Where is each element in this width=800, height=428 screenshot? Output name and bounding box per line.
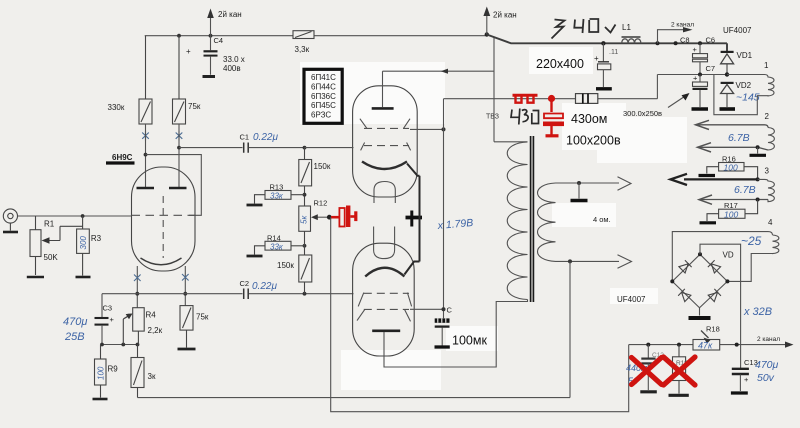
wire heater w1 top lead with arrow	[696, 120, 769, 129]
tube V3 anode	[372, 329, 400, 332]
ground R3	[76, 276, 91, 279]
svg-text:2й кан: 2й кан	[218, 10, 242, 19]
svg-text:C6: C6	[706, 36, 716, 45]
diode bridge BL	[678, 289, 691, 302]
node junction dot on rail at 75k	[177, 34, 181, 38]
svg-text:4: 4	[768, 218, 773, 227]
ground C4	[203, 75, 216, 78]
svg-text:L1: L1	[622, 23, 631, 32]
resistor 330к	[139, 36, 152, 124]
ground VD2	[720, 107, 736, 111]
svg-text:100: 100	[724, 210, 738, 220]
pin cross mark	[142, 131, 149, 141]
resistor R14	[255, 231, 305, 255]
tube U1 plates	[137, 187, 187, 189]
resistor R9	[95, 345, 107, 398]
capacitor C3	[95, 304, 115, 345]
node bridge left/right dots	[670, 279, 674, 283]
ground C13	[731, 391, 748, 394]
ground bridge minus	[699, 308, 701, 316]
node divider top dot	[303, 146, 307, 150]
svg-text:50v: 50v	[757, 372, 775, 384]
svg-text:47к: 47к	[698, 341, 713, 351]
wire arrow 2й кан left	[207, 9, 214, 36]
ground 75k	[178, 348, 196, 351]
resistor 150к lower	[299, 255, 312, 294]
tube V2 upper envelope	[353, 86, 418, 197]
wire R12 wiper	[316, 216, 329, 218]
ground R9	[93, 398, 108, 401]
tube U1 center divider dashed	[162, 196, 164, 258]
resistor 150к upper	[299, 148, 312, 206]
svg-text:150к: 150к	[277, 261, 294, 270]
bridge diamond	[672, 254, 727, 307]
node right cathode dot	[183, 292, 187, 296]
diode bridge BR	[708, 289, 721, 302]
tube U1 grid dashed	[132, 214, 196, 216]
ground w1	[757, 147, 759, 153]
svg-text:3к: 3к	[148, 372, 156, 381]
node wiper dot	[327, 215, 332, 220]
wire secondary top lead	[556, 182, 620, 184]
wire down to C3	[101, 294, 103, 318]
node screen bus dot C	[442, 307, 446, 311]
wire anode to transformer	[384, 302, 510, 368]
potentiometer R12	[299, 206, 311, 231]
white patches (erasures)	[300, 47, 687, 390]
node w2 dot	[756, 198, 760, 202]
svg-text:R18: R18	[706, 325, 720, 334]
svg-text:C2: C2	[240, 279, 250, 288]
wire screen bus vertical	[443, 99, 445, 319]
svg-text:4 ом.: 4 ом.	[593, 215, 611, 224]
svg-text:6П36С: 6П36С	[311, 92, 336, 101]
svg-text:100: 100	[97, 366, 106, 380]
svg-text:6.7В: 6.7В	[734, 184, 756, 196]
wire right cathode lead	[184, 266, 186, 306]
svg-text:3: 3	[765, 167, 770, 176]
svg-text:430ом: 430ом	[571, 112, 607, 126]
tube V2 anode	[372, 107, 394, 110]
svg-text:R1: R1	[44, 220, 55, 229]
ground jack	[3, 231, 18, 234]
tube V2 screen grid dashed	[364, 127, 409, 129]
winding HV secondary	[714, 75, 774, 115]
node right plate dot	[177, 146, 181, 150]
wire heater mid thick arrow	[671, 174, 758, 185]
svg-text:2 канал: 2 канал	[671, 22, 694, 29]
svg-text:400в: 400в	[223, 64, 241, 73]
svg-text:6П44С: 6П44С	[311, 82, 336, 91]
tube types list box	[304, 69, 342, 123]
svg-text:100: 100	[724, 163, 738, 173]
tube V3 cathode arc	[365, 268, 404, 277]
svg-text:6П45С: 6П45С	[311, 101, 336, 110]
wire B+ top rail	[145, 35, 487, 37]
tube V2 control grid dashed	[364, 145, 409, 147]
diode bridge TL	[679, 260, 692, 273]
svg-text:R12: R12	[314, 199, 328, 208]
svg-text:R3: R3	[91, 234, 102, 243]
wire C1 to grid	[305, 147, 354, 149]
ground R16	[699, 174, 716, 177]
node mid dot	[756, 177, 760, 181]
node left cathode dot	[135, 292, 139, 296]
node dots bias	[100, 343, 104, 347]
svg-text:470μ: 470μ	[63, 316, 87, 328]
svg-text:ТВЗ: ТВЗ	[486, 114, 499, 121]
svg-text:220х400: 220х400	[536, 57, 584, 71]
node junction dot on rail at C4	[209, 34, 213, 38]
wire cathode bus to C2	[102, 293, 354, 295]
resistor R3	[77, 216, 90, 276]
svg-text:~145: ~145	[736, 92, 760, 104]
svg-text:.11: .11	[609, 49, 618, 56]
svg-text:6Н9С: 6Н9С	[112, 153, 133, 162]
winding 6.3V #1	[768, 128, 774, 151]
pin cross mark	[134, 275, 141, 282]
wire secondary bottom lead	[556, 260, 620, 262]
svg-text:VD1: VD1	[737, 51, 753, 60]
node dots	[646, 343, 650, 347]
tube V3 heater	[374, 227, 395, 259]
wire bridge plus output	[700, 244, 741, 344]
tube V3 screen grid dashed	[364, 308, 409, 310]
node R13 dot	[303, 193, 307, 197]
wire left plate link	[146, 155, 202, 216]
svg-text:6.7В: 6.7В	[728, 132, 750, 144]
red X over R19	[664, 357, 696, 385]
svg-text:6П41С: 6П41С	[311, 73, 336, 82]
pin cross mark	[176, 131, 183, 141]
svg-text:100х200в: 100х200в	[566, 134, 621, 148]
svg-text:C7: C7	[706, 64, 716, 73]
ground R19	[669, 394, 689, 397]
wire screen supply line	[444, 75, 728, 99]
diode VD1	[721, 43, 734, 74]
transformer primary winding	[507, 142, 527, 300]
transformer core	[530, 136, 532, 302]
tube V2 heater	[374, 182, 395, 204]
svg-text:VD2: VD2	[736, 81, 752, 90]
svg-text:2й кан: 2й кан	[493, 11, 517, 20]
ground 220x400	[596, 87, 612, 90]
ground R14	[247, 255, 263, 258]
wire primary top lead	[494, 141, 528, 143]
ground R1	[27, 276, 44, 279]
node grid input dot	[81, 214, 85, 218]
svg-text:75к: 75к	[188, 102, 201, 111]
node left plate dot	[144, 153, 148, 157]
wire NFB line	[331, 217, 629, 412]
svg-text:5к: 5к	[300, 215, 309, 224]
svg-text:C: C	[447, 306, 453, 315]
wire heater w1 bottom lead with arrow	[698, 143, 769, 152]
svg-text:UF4007: UF4007	[723, 26, 752, 35]
capacitor red annotation mid	[331, 206, 357, 228]
svg-text:+: +	[693, 74, 698, 83]
svg-text:+: +	[186, 47, 191, 56]
svg-text:2: 2	[765, 112, 770, 121]
resistor 75к upper	[173, 36, 186, 124]
svg-text:470μ: 470μ	[755, 359, 779, 371]
svg-text:1: 1	[764, 61, 769, 70]
input jack	[3, 209, 17, 231]
diode VD2	[721, 83, 734, 107]
capacitor box with bars	[576, 94, 598, 104]
svg-text:+: +	[110, 315, 115, 324]
capacitor 100мк	[435, 318, 450, 347]
wire 2 канал top branch	[658, 27, 693, 43]
node secondary gnd dot	[577, 181, 581, 185]
svg-text:х 32В: х 32В	[743, 306, 772, 318]
wire 75k lead down	[178, 124, 180, 187]
svg-text:+: +	[744, 375, 749, 384]
wire C1 to divider	[249, 147, 305, 149]
svg-text:C3: C3	[103, 304, 113, 313]
winding 6.3V #2	[758, 179, 775, 201]
ground secondary	[578, 183, 580, 199]
svg-text:33к: 33к	[270, 242, 284, 251]
node R14 dot	[303, 244, 307, 248]
wire cathode link	[407, 164, 420, 262]
wire arrow 2й кан right	[483, 7, 490, 35]
svg-text:3,3к: 3,3к	[295, 45, 310, 54]
resistor red annotation 430 comb	[513, 95, 538, 102]
speaker fork top	[618, 177, 632, 191]
svg-text:50K: 50K	[44, 253, 59, 262]
ground R13	[247, 204, 263, 207]
capacitor 220x400	[594, 43, 611, 87]
wire 330k lead down	[145, 124, 147, 187]
tube U1 cathode arc	[141, 258, 182, 265]
svg-text:100мк: 100мк	[452, 334, 487, 348]
svg-text:6РЗС: 6РЗС	[311, 110, 331, 119]
ground C7	[692, 107, 709, 111]
resistor R19 crossed out	[673, 345, 686, 394]
wire diagonal to 340 rail	[487, 35, 727, 44]
svg-text:150к: 150к	[314, 162, 331, 171]
wire cathode bias node	[102, 344, 138, 346]
transformer secondary winding	[538, 183, 556, 261]
svg-text:UF4007: UF4007	[617, 295, 646, 304]
svg-text:C1: C1	[240, 133, 250, 142]
resistor 75к lower	[180, 306, 193, 348]
svg-text:C4: C4	[214, 36, 224, 45]
svg-text:+: +	[693, 45, 698, 54]
wire plate to C1	[179, 147, 243, 149]
tube V2 cathode arc	[362, 162, 407, 170]
svg-text:R9: R9	[108, 365, 119, 374]
capacitor grid-stopper black T	[406, 216, 423, 220]
svg-text:75к: 75к	[196, 313, 209, 322]
svg-text:300.0х250в: 300.0х250в	[623, 109, 662, 118]
svg-text:2 канал: 2 канал	[757, 336, 780, 343]
pin cross mark	[182, 274, 189, 281]
wire heater w2 bottom lead with arrow	[699, 195, 768, 204]
resistor 3,3к	[293, 31, 314, 39]
svg-text:VD: VD	[723, 251, 734, 260]
node w1 gnd dot	[756, 145, 760, 149]
ground C12	[640, 390, 657, 393]
speaker fork bottom	[618, 255, 632, 268]
wire cathode link lower	[404, 262, 419, 275]
svg-text:0.22μ: 0.22μ	[252, 281, 277, 292]
wire screen to bus	[410, 128, 444, 130]
node VD junction dot	[725, 72, 729, 76]
tube U1 6Н9С envelope	[132, 167, 196, 271]
svg-text:25В: 25В	[64, 331, 85, 343]
tube V3 lower envelope	[353, 243, 415, 356]
tube V3 control grid dashed	[364, 292, 409, 294]
node C2 right dot	[303, 292, 307, 296]
svg-text:~25: ~25	[741, 234, 762, 248]
red X over C12	[632, 358, 662, 385]
wire node line	[629, 344, 789, 346]
arrow mark on wire	[441, 69, 448, 74]
handwriting 430 black	[511, 109, 539, 125]
capacitor red annotation vertical	[543, 95, 564, 136]
node B+ junction dot	[485, 32, 489, 36]
resistor 3к	[131, 345, 144, 398]
svg-text:33к: 33к	[270, 192, 284, 201]
wire feedback line A	[138, 261, 571, 397]
wire anode to B+	[383, 38, 495, 142]
svg-text:C8: C8	[680, 36, 690, 45]
svg-text:300: 300	[79, 236, 88, 250]
potentiometer R4	[123, 308, 144, 345]
wire bridge top loop	[672, 232, 772, 282]
node dots on 340 rail	[601, 41, 605, 45]
svg-text:330к: 330к	[108, 103, 125, 112]
svg-text:R13: R13	[270, 183, 284, 192]
wire input to grid	[18, 215, 132, 217]
inductor L1	[622, 37, 641, 43]
node screen dot	[442, 127, 446, 131]
svg-text:R4: R4	[146, 311, 157, 320]
svg-text:R14: R14	[267, 234, 281, 243]
node secondary bottom dot	[568, 259, 572, 263]
wire primary bottom lead	[496, 300, 527, 302]
resistor R13	[255, 191, 305, 204]
capacitor C2	[240, 279, 278, 299]
capacitor C4	[186, 36, 245, 75]
wire left cathode lead	[136, 266, 138, 308]
diode bridge TR	[708, 260, 721, 273]
capacitor C12 crossed out	[641, 345, 664, 390]
potentiometer R1	[30, 216, 83, 275]
capacitor C1	[240, 132, 279, 153]
winding ~25	[727, 235, 778, 281]
ground R17	[700, 221, 717, 224]
svg-text:0.22μ: 0.22μ	[253, 132, 278, 143]
wire screen lower to bus	[410, 308, 444, 310]
svg-text:33.0 х: 33.0 х	[223, 55, 245, 64]
node bridge top dot	[698, 252, 702, 256]
svg-text:2,2к: 2,2к	[148, 326, 163, 335]
